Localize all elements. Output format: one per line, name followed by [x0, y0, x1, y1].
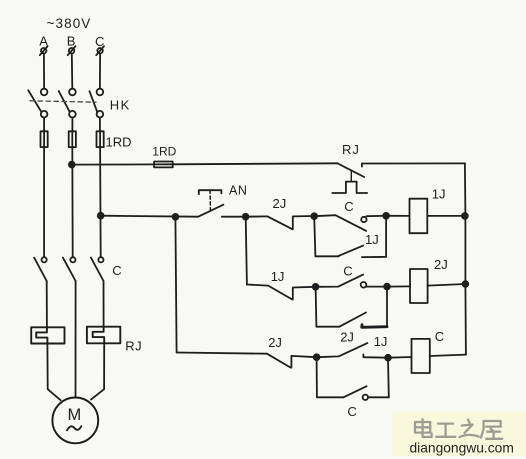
contact 2J row1 blade	[268, 216, 293, 229]
thermal relay RJ heater phase C	[87, 327, 120, 344]
contactor C main contact pole C	[91, 257, 104, 281]
node left rail top	[173, 214, 179, 220]
fuse 1RD phase C	[97, 131, 104, 147]
wire phase B fuse to contactor	[71, 147, 73, 257]
wire row3 to coil C	[388, 356, 412, 359]
svg-text:C: C	[112, 263, 121, 278]
wire phase C drop to switch	[99, 54, 101, 89]
wire switch C to fuse	[99, 118, 101, 132]
contact 1J row2	[247, 285, 316, 300]
svg-text:C: C	[343, 264, 352, 279]
switch HK pole C	[90, 89, 104, 118]
svg-text:2J: 2J	[268, 335, 282, 350]
wire row3 branch right side	[387, 358, 390, 398]
wire heater C to motor	[91, 343, 104, 399]
wire right rail	[465, 163, 466, 354]
svg-text:~380V: ~380V	[47, 16, 92, 31]
relay contact RJ right terminal	[362, 163, 465, 166]
wire coil C to right rail	[430, 355, 466, 356]
node C-phase tap	[98, 213, 104, 219]
wire control line 1 left	[72, 163, 154, 165]
svg-text:C: C	[95, 34, 104, 49]
thermal relay RJ heater phase A	[31, 327, 64, 343]
wire phase C fuse to contactor	[99, 147, 102, 257]
wire phase B drop to switch	[71, 54, 74, 89]
node row2 right	[384, 284, 390, 290]
node row1 mid	[311, 213, 317, 219]
phase terminal A	[40, 46, 48, 55]
svg-text:AN: AN	[229, 184, 247, 198]
contact 1J row1-parallel blade	[339, 246, 363, 256]
contact C row2	[316, 275, 387, 288]
relay RJ bump connector	[350, 172, 352, 182]
wire left rail down	[175, 217, 176, 353]
watermark background	[393, 412, 526, 457]
wire coil 1J to right rail	[427, 215, 465, 217]
wire row1 to coil 1J	[386, 215, 409, 217]
coil C	[412, 339, 430, 373]
wire row3 branch down	[317, 357, 344, 397]
wire heater A to motor	[47, 344, 60, 401]
svg-text:HK: HK	[110, 98, 131, 113]
svg-text:1RD: 1RD	[106, 134, 132, 149]
node rail row1	[462, 213, 468, 219]
watermark glyph 之	[460, 420, 479, 438]
contact 1J row3	[317, 343, 388, 358]
coil 1J	[410, 199, 428, 234]
svg-text:1J: 1J	[271, 269, 285, 284]
contact C row1	[314, 215, 386, 231]
fuse 1RD phase A	[41, 131, 48, 147]
svg-text:C: C	[347, 404, 356, 419]
node row2/row3 feed tap	[243, 214, 249, 220]
svg-text:1RD: 1RD	[152, 144, 176, 158]
switch HK pole A	[28, 89, 47, 118]
watermark glyph 屋	[481, 421, 502, 439]
wire phase A drop to switch	[43, 54, 45, 89]
switch HK linkage (dashed)	[30, 101, 96, 102]
node B-phase tap	[69, 162, 75, 168]
motor tilde	[67, 426, 81, 430]
svg-text:C: C	[344, 199, 353, 214]
wire row2 branch down	[316, 287, 340, 327]
fuse 1RD control	[154, 162, 173, 168]
svg-text:1J: 1J	[374, 334, 388, 349]
phase terminal C	[96, 46, 104, 55]
coil 2J	[410, 269, 428, 303]
wire phase A fuse to contactor	[43, 147, 45, 257]
wire row2 branch right side	[386, 287, 388, 327]
wire row1 branch down	[314, 216, 339, 256]
contact 2J row1 right post	[293, 216, 314, 229]
contact C row3-parallel	[344, 386, 389, 400]
node rail row2	[463, 281, 469, 287]
node row3 right	[385, 355, 391, 361]
svg-text:A: A	[39, 33, 48, 48]
switch HK pole B	[59, 89, 76, 118]
svg-text:2J: 2J	[434, 257, 448, 272]
wire contact C to thermal element	[103, 281, 105, 327]
contactor C main contact pole B	[63, 257, 76, 281]
wire contact B to motor	[75, 281, 77, 397]
wire switch B to fuse	[71, 118, 73, 132]
wire feed to row2	[246, 217, 247, 285]
contactor C main contact pole A	[34, 257, 47, 281]
pushbutton AN actuator stem (dashed)	[209, 190, 211, 212]
wire coil 2J to right rail	[428, 284, 466, 286]
watermark glyph 工	[436, 424, 455, 437]
svg-text:1J: 1J	[432, 187, 446, 202]
svg-text:diangongwu.com: diangongwu.com	[410, 441, 514, 456]
contact 2J row2-parallel blade	[339, 313, 366, 327]
fuse 1RD phase B	[69, 131, 76, 147]
wire row1 branch right side	[362, 216, 386, 257]
svg-text:2J: 2J	[273, 196, 287, 211]
relay contact RJ (NC) blade	[337, 163, 364, 177]
watermark glyph 电	[415, 419, 432, 437]
svg-text:1J: 1J	[365, 232, 379, 247]
contact 2J row3	[267, 354, 317, 368]
svg-text:2J: 2J	[340, 330, 354, 345]
pushbutton AN blade	[198, 205, 223, 217]
contact 2J row2-parallel fixed (bold)	[362, 325, 387, 328]
wire AN right to row1	[222, 215, 268, 217]
motor M	[52, 398, 98, 444]
wire left rail to row3	[177, 353, 267, 354]
svg-text:RJ: RJ	[125, 339, 142, 354]
svg-text:C: C	[435, 329, 444, 344]
wire control line 2 to AN	[101, 216, 199, 217]
pushbutton AN actuator bar	[199, 190, 222, 194]
wire row2 to coil 2J	[387, 285, 410, 287]
svg-text:M: M	[68, 406, 82, 424]
node row1 right	[383, 213, 389, 219]
node row2 left	[313, 284, 319, 290]
phase terminal B	[68, 46, 76, 55]
wire control line 1 to RJ contact	[173, 163, 338, 164]
node row3 left	[314, 354, 320, 360]
wire switch A to fuse	[43, 118, 45, 132]
relay RJ thermal bump symbol	[332, 182, 367, 193]
svg-text:RJ: RJ	[342, 142, 360, 157]
wire contact A to thermal element	[46, 281, 48, 327]
svg-text:B: B	[67, 33, 76, 48]
